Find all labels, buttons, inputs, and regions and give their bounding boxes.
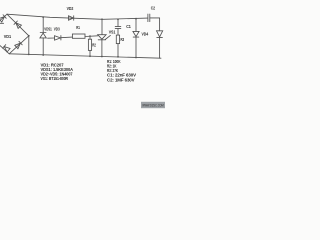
svg-text:C1: C1 [126,24,131,29]
wire: bottom bus [9,54,161,58]
resistor R3 (vertical box) [116,35,119,57]
resistor R2 (vertical box with leads) [88,36,91,56]
bridge diode (upper-right side) [14,21,21,28]
wire: middle branch [48,37,55,39]
wire: bridge right corner down to bottom bus [28,36,30,55]
svg-text:R2: R2 [92,43,96,48]
wire: top bus right of C2 [150,17,160,19]
parts list (left column) [41,62,74,81]
svg-text:VD4: VD4 [142,31,149,36]
capacitor C2 (in series on top bus) [148,14,150,22]
svg-text:VS1: BT151-800R: VS1: BT151-800R [41,76,69,81]
bridge rectifier VD1 (diamond, left corner cut by image edge) [0,14,29,54]
junction dots [28,16,137,58]
watermark [141,102,165,108]
svg-text:VDS1: VDS1 [44,26,52,31]
bridge diode (upper-left side, partly visible) [0,15,6,22]
svg-text:VS1: VS1 [109,30,116,35]
thyristor VS1 [98,19,111,56]
svg-text:WWW.DZSC.COM: WWW.DZSC.COM [142,104,164,108]
bridge diode (lower-left side, partly visible) [3,45,11,52]
capacitor C1 (vertical) [115,19,121,35]
AC input stub at left edge [0,22,4,24]
bridge diode (lower-right side) [15,41,23,48]
svg-text:C2: C2 [151,6,156,11]
resistor R1 (horizontal box) [72,34,85,38]
svg-text:VD3: VD3 [54,26,60,31]
svg-text:R3: R3 [121,37,125,42]
svg-text:R1: R1 [76,25,80,30]
svg-text:C2: 1MF 630V: C2: 1MF 630V [107,77,135,82]
svg-text:VD1: VD1 [4,34,12,39]
diode VD5 (vertical, right edge) [157,18,163,58]
TVS diode VDS1 (vertical branch) [40,17,46,55]
wire: top bus [7,14,148,19]
svg-text:VD2: VD2 [67,6,74,11]
parts list (right column) [107,59,136,82]
diode VD4 (vertical) [133,19,139,58]
diode VD2 (on top bus) [69,16,74,20]
diode VD3 (on middle branch) [55,36,61,41]
component labels [4,6,156,48]
